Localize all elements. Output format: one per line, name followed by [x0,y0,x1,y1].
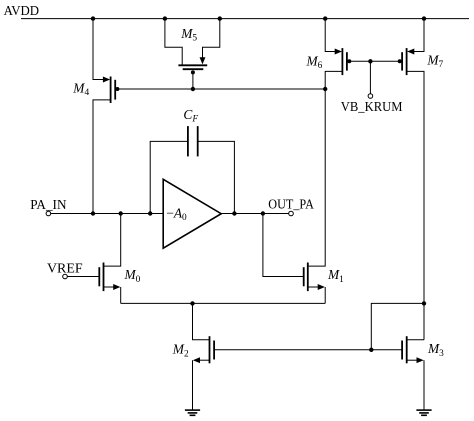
wire M2 source down to ground [192,360,194,409]
transistor M4 gate bar [114,80,116,100]
wire M0 source down [120,287,122,303]
wire AVDD rail [21,18,469,20]
transistor M2 gate bar [213,341,215,360]
transistor M7 gate bar [401,52,403,70]
junction dot M1 gate branch [261,211,265,215]
terminal OUT_PA [289,211,294,216]
junction dot M0 branch [119,211,123,215]
junction dot M2 drain / rail [190,301,194,305]
transistor M6 channel [341,48,343,75]
terminal VB_KRUM [368,94,373,99]
transistor M4 channel [110,77,112,104]
capacitor CF right lead [198,141,235,213]
junction dot AVDD/M4 [91,16,95,20]
transistor M4 gate dot [115,87,119,91]
svg-text:OUT_PA: OUT_PA [268,197,314,212]
junction dot VB_KRUM [368,59,372,63]
junction dot CF branch [148,211,152,215]
transistor M7 gate dot [398,59,402,63]
junction dot M4 drain / PA_IN [91,211,95,215]
transistor M0 source arrow [113,284,120,290]
junction dot AVDD/M6 [323,16,327,20]
wire VREF to M0 gate [67,276,99,278]
wire gate bus M6-M7 [349,60,400,62]
transistor M3 gate bar [401,341,403,360]
junction dot M3 drain [422,301,426,305]
svg-text:VREF: VREF [47,261,83,276]
transistor M7 channel [406,48,408,75]
wire op-amp output [221,213,289,215]
wire gate bus M4-M5-M6 [117,88,325,90]
wire M7 drain down [407,71,424,339]
transistor M1 gate bar [303,267,305,286]
transistor M6 gate dot [347,59,351,63]
transistor M1 source arrow [318,284,325,290]
op-amp A0 [163,179,221,248]
wire M1 source down [324,287,326,303]
svg-text:VB_KRUM: VB_KRUM [341,99,403,114]
wire bottom rail [121,302,326,304]
wire M5 right terminal [203,19,220,59]
transistor M5 bottom bar (gate) [183,68,204,70]
transistor M5 top bar [178,64,207,66]
transistor M0 channel [103,263,105,292]
transistor M0 source lead [104,286,116,288]
transistor M1 channel [307,263,309,292]
wire M3 drain lead [407,339,424,341]
junction dot CF / output [232,211,236,215]
terminal VREF [63,274,68,279]
transistor M0 gate bar [98,267,100,286]
wire M4 drain to PA_IN [93,100,111,214]
junction dot AVDD/M5 right [218,16,222,20]
wire PA_IN to op-amp [51,213,164,215]
svg-text:PA_IN: PA_IN [30,198,66,213]
transistor M6 gate bar [346,52,348,70]
transistor M1 source lead [308,286,320,288]
transistor M4 source arrow [103,77,110,83]
svg-text:AVDD: AVDD [4,3,40,18]
capacitor CF plates [187,126,189,156]
transistor M3 channel [406,336,408,363]
terminal PA_IN [46,211,51,216]
wire M7 source from AVDD [411,19,424,52]
transistor M7 source arrow [407,49,414,55]
transistor M3 source arrow [417,357,424,363]
junction dot AVDD/M7 [422,16,426,20]
ground M3 [416,409,431,411]
transistor M5 gate dot [191,70,195,74]
wire M4 source from AVDD [93,19,107,80]
ground M2 [185,409,200,411]
wire M5 gate to bus [192,72,194,89]
capacitor CF left lead [150,141,188,213]
wire M2 drain up to rail [193,303,210,339]
transistor M3 source lead [407,359,419,361]
transistor M2 channel [209,336,211,363]
junction dot AVDD/M5 left [163,16,167,20]
wire M1 gate from output [263,214,304,277]
wire M2 gate to M3 gate [214,349,402,351]
wire M3 source down to ground [423,360,425,409]
junction dot M3 gate feedback [369,348,373,352]
junction dot M6 drain / bus [323,87,327,91]
wire M5 left terminal [165,19,182,65]
transistor M2 source lead [198,359,210,361]
transistor M2 source arrow [193,357,200,363]
wire M6 source from AVDD [325,19,338,52]
wire VB_KRUM stub [369,61,371,93]
wire M6 drain down to bus junction [325,71,342,89]
junction dot M5 gate / bus [191,87,195,91]
wire M3 gate-drain connection [371,303,424,349]
wire M1 drain up to M6 [308,89,325,266]
wire M0 drain up to PA_IN [104,214,121,267]
transistor M5 arrow down [200,57,206,64]
transistor M6 source arrow [335,49,342,55]
